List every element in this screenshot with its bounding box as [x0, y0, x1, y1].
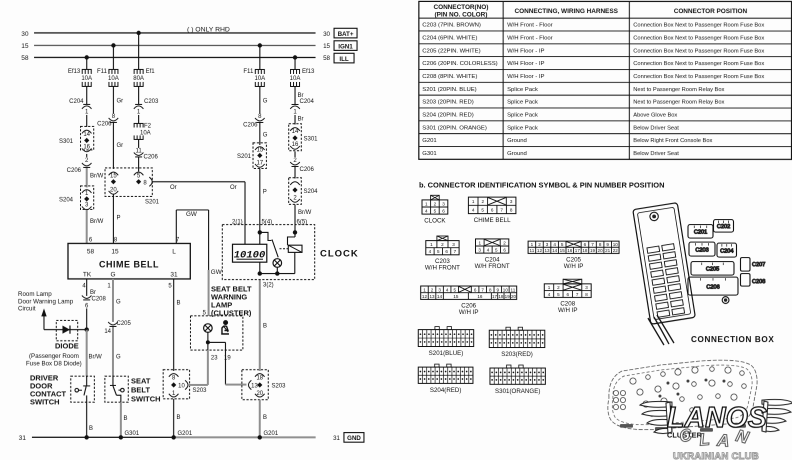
svg-text:6: 6: [474, 287, 477, 292]
svg-text:S301 (20PIN. ORANGE): S301 (20PIN. ORANGE): [422, 125, 487, 131]
svg-text:12: 12: [537, 248, 543, 253]
svg-text:CONNECTING, WIRING HARNESS: CONNECTING, WIRING HARNESS: [515, 8, 619, 15]
svg-text:Next to Passenger Room Relay B: Next to Passenger Room Relay Box: [633, 100, 724, 106]
svg-text:2: 2: [482, 199, 485, 204]
svg-text:6: 6: [442, 208, 445, 213]
svg-text:Connection Box Next to Passeng: Connection Box Next to Passenger Room Fu…: [633, 23, 764, 29]
svg-text:S203: S203: [271, 383, 286, 389]
svg-text:6: 6: [503, 247, 506, 252]
svg-text:B: B: [123, 416, 127, 422]
svg-text:30: 30: [323, 31, 330, 38]
svg-text:( ) ONLY RHD: ( ) ONLY RHD: [187, 26, 230, 33]
svg-text:S204: S204: [59, 197, 74, 203]
svg-text:11: 11: [511, 287, 516, 292]
svg-text:S203: S203: [192, 388, 207, 394]
svg-text:C205: C205: [706, 267, 719, 273]
svg-text:S204: S204: [304, 189, 319, 195]
svg-text:15: 15: [560, 248, 566, 253]
svg-text:1: 1: [531, 242, 534, 247]
svg-text:4: 4: [548, 292, 551, 297]
svg-text:P: P: [117, 215, 121, 221]
svg-text:GW: GW: [211, 269, 222, 276]
svg-text:S201(BLUE): S201(BLUE): [429, 350, 464, 357]
svg-text:G201: G201: [177, 431, 192, 437]
svg-text:C206: C206: [97, 121, 112, 127]
svg-text:G301: G301: [124, 431, 139, 437]
svg-text:10A: 10A: [140, 130, 151, 136]
svg-text:2: 2: [434, 201, 437, 206]
svg-text:2: 2: [441, 242, 444, 247]
svg-text:5: 5: [481, 207, 484, 212]
svg-text:CONNECTOR POSITION: CONNECTOR POSITION: [674, 8, 748, 15]
svg-text:G: G: [263, 98, 268, 104]
svg-text:3: 3: [585, 285, 588, 290]
svg-text:Above Glove Box: Above Glove Box: [633, 113, 677, 119]
svg-text:18: 18: [582, 248, 588, 253]
svg-text:TK: TK: [83, 271, 92, 278]
svg-text:Splice Pack: Splice Pack: [507, 113, 538, 119]
svg-text:S301(ORANGE): S301(ORANGE): [495, 388, 540, 395]
svg-text:GND: GND: [347, 435, 361, 442]
svg-text:23: 23: [211, 355, 218, 361]
svg-text:4: 4: [487, 247, 490, 252]
svg-text:C203: C203: [695, 247, 708, 253]
svg-text:5: 5: [557, 292, 560, 297]
svg-text:S203(RED): S203(RED): [501, 351, 533, 358]
svg-text:8: 8: [510, 207, 513, 212]
svg-text:Ef13: Ef13: [302, 69, 315, 75]
svg-text:Br: Br: [90, 290, 96, 296]
svg-text:3: 3: [546, 242, 549, 247]
svg-text:17: 17: [575, 248, 581, 253]
svg-text:W/H Floor - IP: W/H Floor - IP: [507, 74, 544, 80]
svg-text:10A: 10A: [108, 76, 119, 82]
svg-text:14: 14: [104, 329, 111, 335]
svg-text:18: 18: [256, 375, 263, 381]
svg-text:G: G: [116, 354, 121, 360]
svg-text:14: 14: [552, 248, 558, 253]
svg-text:58: 58: [323, 55, 330, 62]
svg-text:B: B: [176, 415, 180, 421]
svg-text:2: 2: [503, 240, 506, 245]
svg-text:Splice Pack: Splice Pack: [507, 100, 538, 106]
svg-text:W/H Floor - IP: W/H Floor - IP: [507, 48, 544, 54]
svg-text:C205: C205: [116, 321, 131, 327]
svg-text:B: B: [176, 300, 180, 306]
svg-text:F11: F11: [243, 69, 254, 75]
svg-text:W/H IP: W/H IP: [564, 263, 584, 270]
svg-text:SWITCH: SWITCH: [30, 397, 60, 406]
svg-text:P: P: [263, 189, 267, 195]
svg-text:19: 19: [590, 248, 596, 253]
svg-text:C204 (6PIN. WHITE): C204 (6PIN. WHITE): [422, 36, 477, 42]
svg-text:13: 13: [429, 294, 435, 299]
svg-text:Connection Box Next to Passeng: Connection Box Next to Passenger Room Fu…: [633, 48, 764, 54]
svg-text:Ground: Ground: [507, 151, 527, 157]
svg-text:C204: C204: [300, 99, 315, 105]
svg-text:CLOCK: CLOCK: [320, 248, 359, 259]
svg-text:A: A: [716, 431, 731, 451]
svg-text:14: 14: [83, 132, 90, 138]
svg-text:12: 12: [422, 294, 428, 299]
svg-text:10: 10: [613, 242, 619, 247]
svg-text:C206: C206: [243, 122, 258, 128]
svg-text:1: 1: [548, 285, 551, 290]
svg-text:G301: G301: [422, 151, 436, 157]
svg-text:G: G: [110, 271, 115, 278]
svg-text:C203 (7PIN. BROWN): C203 (7PIN. BROWN): [422, 23, 481, 29]
svg-text:Below Driver Seat: Below Driver Seat: [633, 151, 679, 157]
svg-text:(CLUSTER): (CLUSTER): [211, 308, 252, 317]
svg-text:C208 (8PIN. WHITE): C208 (8PIN. WHITE): [422, 74, 477, 80]
svg-text:21: 21: [605, 248, 611, 253]
svg-text:Circuit: Circuit: [18, 306, 36, 313]
svg-text:B: B: [263, 415, 267, 421]
svg-text:Br/W: Br/W: [88, 354, 102, 360]
svg-text:Br/W: Br/W: [298, 210, 312, 216]
svg-text:C203: C203: [144, 99, 159, 105]
svg-text:5: 5: [453, 287, 456, 292]
svg-text:b. CONNECTOR IDENTIFICATION SY: b. CONNECTOR IDENTIFICATION SYMBOL & PIN…: [419, 181, 664, 190]
svg-text:S301: S301: [59, 139, 74, 145]
svg-text:16: 16: [83, 144, 90, 150]
svg-text:8: 8: [599, 242, 602, 247]
svg-text:G: G: [263, 132, 268, 138]
svg-text:2: 2: [431, 287, 434, 292]
svg-text:2(1): 2(1): [232, 219, 243, 225]
svg-text:15: 15: [111, 248, 119, 255]
svg-text:3: 3: [438, 287, 441, 292]
svg-text:1: 1: [430, 242, 433, 247]
svg-text:(Passenger Room: (Passenger Room: [29, 353, 79, 360]
svg-text:Or: Or: [170, 185, 177, 191]
svg-text:18: 18: [498, 294, 504, 299]
svg-text:15: 15: [323, 43, 330, 50]
svg-text:1: 1: [423, 287, 426, 292]
svg-text:1: 1: [472, 199, 475, 204]
svg-text:Br/W: Br/W: [90, 219, 104, 225]
svg-text:4: 4: [425, 208, 428, 213]
svg-text:G: G: [116, 299, 121, 305]
svg-text:11: 11: [529, 248, 534, 253]
svg-text:6: 6: [491, 207, 494, 212]
svg-text:C205 (22PIN. WHITE): C205 (22PIN. WHITE): [422, 48, 480, 54]
svg-text:20: 20: [598, 248, 604, 253]
svg-text:15: 15: [256, 147, 263, 153]
svg-text:Br: Br: [298, 93, 304, 99]
svg-text:58: 58: [87, 248, 95, 255]
svg-text:Splice Pack: Splice Pack: [507, 87, 538, 93]
svg-text:3: 3: [442, 201, 445, 206]
svg-text:Door Warning Lamp: Door Warning Lamp: [18, 298, 74, 305]
svg-text:3: 3: [510, 199, 513, 204]
svg-text:W/H IP: W/H IP: [558, 307, 578, 314]
svg-text:W/H IP: W/H IP: [459, 309, 479, 316]
svg-text:9: 9: [606, 242, 609, 247]
svg-text:31: 31: [333, 435, 340, 442]
svg-text:4: 4: [446, 287, 449, 292]
svg-text:C201: C201: [694, 230, 707, 236]
svg-text:G201: G201: [263, 431, 278, 437]
svg-text:CLOCK: CLOCK: [424, 217, 446, 224]
svg-text:20: 20: [511, 294, 517, 299]
svg-text:F2: F2: [144, 123, 152, 129]
svg-text:Below Right Front Console Box: Below Right Front Console Box: [633, 138, 712, 144]
svg-text:S204 (20PIN. RED): S204 (20PIN. RED): [422, 113, 473, 119]
svg-text:Below Driver Seat: Below Driver Seat: [633, 125, 679, 131]
svg-text:6: 6: [584, 242, 587, 247]
svg-text:30: 30: [21, 31, 29, 38]
svg-text:BELT: BELT: [131, 385, 150, 394]
svg-text:7: 7: [481, 287, 484, 292]
svg-text:19: 19: [224, 355, 231, 361]
svg-text:7: 7: [454, 249, 457, 254]
svg-text:14: 14: [437, 294, 443, 299]
svg-text:4: 4: [429, 249, 432, 254]
svg-text:Connection Box Next to Passeng: Connection Box Next to Passenger Room Fu…: [633, 74, 764, 80]
svg-text:S201 (20PIN. BLUE): S201 (20PIN. BLUE): [422, 87, 476, 93]
svg-text:C207: C207: [752, 262, 765, 268]
svg-text:Ef1: Ef1: [146, 69, 156, 75]
svg-text:15: 15: [453, 294, 459, 299]
svg-text:Gr: Gr: [117, 98, 124, 104]
svg-text:10A: 10A: [81, 76, 92, 82]
svg-text:2: 2: [557, 285, 560, 290]
svg-text:6(5): 6(5): [297, 219, 308, 225]
svg-text:2: 2: [538, 242, 541, 247]
svg-text:DIODE: DIODE: [55, 341, 79, 350]
svg-text:Br/W: Br/W: [90, 173, 104, 179]
svg-text:Ground: Ground: [507, 138, 527, 144]
svg-text:7: 7: [591, 242, 594, 247]
svg-text:5(4): 5(4): [262, 219, 273, 225]
svg-text:1: 1: [425, 201, 428, 206]
svg-text:Connection Box Next to Passeng: Connection Box Next to Passenger Room Fu…: [633, 36, 764, 42]
svg-text:G201: G201: [422, 138, 436, 144]
svg-text:SEAT: SEAT: [131, 376, 151, 385]
svg-text:W/H FRONT: W/H FRONT: [475, 263, 510, 270]
svg-text:Or: Or: [230, 185, 237, 191]
svg-text:17: 17: [492, 294, 498, 299]
svg-text:L: L: [698, 430, 710, 450]
svg-text:16: 16: [292, 142, 299, 148]
svg-text:4: 4: [553, 242, 556, 247]
svg-text:CHIME BELL: CHIME BELL: [99, 259, 159, 269]
svg-text:CONNECTOR(NO): CONNECTOR(NO): [434, 4, 489, 11]
svg-text:B: B: [263, 323, 267, 329]
svg-text:8: 8: [585, 292, 588, 297]
svg-text:31: 31: [170, 271, 178, 278]
svg-text:GW: GW: [186, 211, 197, 218]
svg-text:L: L: [172, 248, 176, 255]
svg-text:5: 5: [437, 249, 440, 254]
svg-text:C206: C206: [67, 168, 82, 174]
svg-text:8: 8: [489, 287, 492, 292]
svg-text:10A: 10A: [290, 76, 301, 82]
svg-text:Splice Pack: Splice Pack: [507, 125, 538, 131]
svg-text:Fuse Box D8 Diode): Fuse Box D8 Diode): [26, 360, 82, 367]
svg-text:BAT+: BAT+: [338, 31, 354, 38]
svg-text:31: 31: [19, 435, 27, 442]
svg-text:S203 (20PIN. RED): S203 (20PIN. RED): [422, 100, 473, 106]
svg-text:Ef13: Ef13: [68, 69, 81, 75]
svg-text:4: 4: [472, 207, 475, 212]
svg-text:15: 15: [110, 173, 117, 179]
svg-text:1: 1: [479, 240, 482, 245]
svg-text:SWITCH: SWITCH: [131, 394, 161, 403]
svg-text:10: 10: [178, 383, 185, 389]
svg-text:16: 16: [567, 248, 573, 253]
svg-text:6: 6: [566, 292, 569, 297]
svg-text:15: 15: [21, 43, 29, 50]
svg-text:B: B: [89, 426, 93, 432]
svg-text:Br: Br: [298, 116, 304, 122]
svg-text:S201: S201: [237, 154, 252, 160]
svg-text:Next to Passenger Room Relay B: Next to Passenger Room Relay Box: [633, 87, 724, 93]
svg-text:C208: C208: [91, 296, 106, 302]
svg-text:C206: C206: [300, 167, 315, 173]
svg-text:58: 58: [21, 55, 29, 62]
svg-text:W/H Floor - IP: W/H Floor - IP: [507, 61, 544, 67]
svg-text:5: 5: [495, 247, 498, 252]
svg-text:7: 7: [576, 292, 579, 297]
svg-text:S204(RED): S204(RED): [430, 387, 462, 394]
svg-text:5: 5: [561, 242, 564, 247]
svg-text:W/H Front - Floor: W/H Front - Floor: [507, 23, 553, 29]
svg-text:6: 6: [445, 249, 448, 254]
svg-text:16: 16: [477, 294, 483, 299]
svg-text:3: 3: [478, 247, 481, 252]
svg-text:19: 19: [505, 294, 511, 299]
svg-text:Connection Box Next to Passeng: Connection Box Next to Passenger Room Fu…: [633, 61, 764, 67]
svg-text:CHIME BELL: CHIME BELL: [474, 217, 511, 224]
svg-text:7: 7: [500, 207, 503, 212]
svg-text:W/H Front - Floor: W/H Front - Floor: [507, 36, 553, 42]
svg-text:UKRAINIAN CLUB: UKRAINIAN CLUB: [673, 451, 759, 460]
svg-text:S201: S201: [145, 199, 160, 205]
svg-text:IGN1: IGN1: [338, 43, 353, 50]
svg-text:10A: 10A: [254, 76, 265, 82]
svg-text:10: 10: [503, 287, 509, 292]
svg-text:C204: C204: [720, 248, 733, 254]
svg-text:(PIN NO. COLOR): (PIN NO. COLOR): [435, 11, 488, 18]
svg-text:C206 (20PIN. COLORLESS): C206 (20PIN. COLORLESS): [422, 61, 497, 67]
svg-text:13: 13: [544, 248, 550, 253]
svg-text:80A: 80A: [133, 76, 144, 82]
svg-text:CONNECTION BOX: CONNECTION BOX: [691, 335, 774, 344]
svg-text:F11: F11: [97, 69, 108, 75]
svg-text:Gr: Gr: [117, 143, 124, 149]
svg-text:9: 9: [497, 287, 500, 292]
svg-text:5: 5: [434, 208, 437, 213]
svg-text:C206: C206: [144, 154, 159, 160]
svg-text:13: 13: [251, 383, 258, 389]
svg-text:11: 11: [136, 148, 143, 154]
svg-text:W/H FRONT: W/H FRONT: [425, 265, 460, 272]
svg-text:C206: C206: [706, 284, 719, 290]
svg-text:3: 3: [452, 242, 455, 247]
svg-text:C204: C204: [69, 99, 84, 105]
svg-text:S301: S301: [304, 136, 319, 142]
svg-text:3(2): 3(2): [263, 282, 274, 288]
svg-text:14: 14: [292, 129, 299, 135]
svg-text:22: 22: [613, 248, 619, 253]
svg-text:C202: C202: [717, 224, 730, 230]
svg-text:Room Lamp: Room Lamp: [18, 291, 52, 298]
svg-text:C208: C208: [752, 279, 765, 285]
svg-text:ILL: ILL: [339, 56, 349, 63]
